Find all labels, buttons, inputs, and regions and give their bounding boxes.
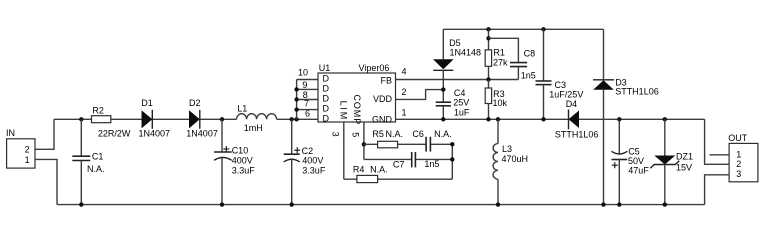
wire COMP pin 5 vertical	[363, 122, 365, 159]
svg-text:STTH1L06: STTH1L06	[615, 86, 659, 96]
svg-text:GND: GND	[372, 114, 393, 124]
svg-text:3.3uF: 3.3uF	[302, 165, 326, 175]
svg-text:6: 6	[305, 109, 310, 119]
svg-text:D: D	[323, 94, 330, 104]
diode D1 1N4007	[139, 98, 171, 138]
node C2 top junction	[290, 117, 294, 121]
capacitor C1	[72, 119, 104, 204]
wire IN pin2 to input rail	[35, 119, 54, 149]
svg-text:2: 2	[402, 87, 407, 97]
diode D4 STTH1L06	[555, 99, 599, 140]
connector OUT	[728, 133, 758, 182]
node DZ1 bottom junction	[663, 202, 667, 206]
node R1 C8 branch junction	[486, 36, 490, 40]
svg-text:R4: R4	[353, 164, 365, 174]
svg-text:C4: C4	[454, 88, 466, 98]
svg-text:OUT: OUT	[728, 133, 748, 143]
wire IC pin 7	[297, 98, 318, 109]
svg-text:1: 1	[736, 149, 741, 159]
svg-text:D2: D2	[189, 98, 201, 108]
node D3 bottom junction	[601, 202, 605, 206]
wire drain bus vertical	[296, 80, 298, 120]
node FB R1 R3 junction	[486, 77, 490, 81]
wire top clamp rail	[443, 28, 603, 30]
svg-text:1N4007: 1N4007	[186, 129, 218, 139]
node R3 GND junction	[486, 117, 490, 121]
resistor R3 10k	[485, 80, 507, 120]
svg-text:27k: 27k	[493, 58, 508, 68]
connector J1 IN	[6, 128, 35, 168]
svg-text:3.3uF: 3.3uF	[232, 165, 256, 175]
wire IC pin 9	[297, 80, 318, 90]
svg-text:C8: C8	[524, 48, 536, 58]
capacitor C6	[412, 129, 451, 151]
node L3 bottom junction	[496, 202, 500, 206]
wire IC pin 8	[297, 90, 318, 100]
zener diode DZ1 15V	[650, 119, 693, 204]
wire C7 line	[364, 158, 452, 160]
wire output rail to OUT pin2	[705, 119, 730, 164]
svg-text:C10: C10	[232, 146, 249, 156]
svg-text:1mH: 1mH	[244, 123, 263, 133]
node drain bus junction at rail	[294, 117, 298, 121]
svg-text:50V: 50V	[628, 156, 644, 166]
wire input rail (top row)	[54, 118, 318, 120]
svg-text:N.A.: N.A.	[386, 129, 404, 139]
node right vertical mid junction	[450, 157, 454, 161]
node bus pin7 junction	[294, 107, 298, 111]
svg-text:R2: R2	[92, 105, 104, 115]
svg-text:C5: C5	[628, 146, 640, 156]
node C3 GND junction	[541, 117, 545, 121]
node right vertical top junction	[450, 142, 454, 146]
svg-text:COMP: COMP	[352, 95, 362, 126]
node C5 top junction	[617, 117, 621, 121]
node bus pin9 junction	[294, 87, 298, 91]
svg-text:10k: 10k	[493, 98, 508, 108]
svg-text:C1: C1	[92, 152, 104, 162]
resistor R1 27k	[485, 29, 508, 79]
svg-text:D4: D4	[566, 99, 578, 109]
wire OUT pin1 stub	[710, 154, 730, 156]
capacitor C4	[436, 88, 470, 119]
capacitor C2 (polarized)	[284, 119, 326, 204]
svg-text:D: D	[323, 104, 330, 114]
resistor R5	[372, 129, 403, 148]
svg-text:C3: C3	[555, 80, 567, 90]
svg-text:2: 2	[736, 159, 741, 169]
svg-text:9: 9	[302, 80, 307, 90]
svg-text:10: 10	[298, 67, 308, 77]
wire R5/C6 line	[364, 143, 452, 145]
svg-text:STTH1L06: STTH1L06	[555, 129, 599, 139]
node C5 bottom junction	[617, 202, 621, 206]
node DZ1 top junction	[663, 117, 667, 121]
diode D3 STTH1L06 branch	[593, 29, 659, 204]
svg-text:1uF: 1uF	[454, 108, 470, 118]
svg-text:15V: 15V	[676, 162, 692, 172]
wire IN pin1 to bottom rail	[35, 159, 57, 204]
svg-text:C7: C7	[393, 159, 405, 169]
svg-text:47uF: 47uF	[628, 166, 649, 176]
svg-text:FB: FB	[380, 75, 392, 85]
capacitor C8 branch	[489, 38, 536, 80]
svg-text:7: 7	[304, 98, 309, 108]
svg-text:400V: 400V	[302, 155, 323, 165]
svg-text:1: 1	[25, 155, 30, 165]
svg-text:D: D	[323, 114, 330, 124]
svg-text:C6: C6	[412, 129, 424, 139]
node top rail R1 junction	[486, 27, 490, 31]
svg-text:N.A.: N.A.	[87, 164, 105, 174]
svg-text:LIM: LIM	[339, 101, 349, 121]
svg-text:25V: 25V	[453, 98, 469, 108]
node C2 bottom junction	[290, 202, 294, 206]
inductor L1 1mH	[237, 104, 277, 133]
svg-text:470uH: 470uH	[502, 154, 529, 164]
svg-text:1n5: 1n5	[521, 70, 536, 80]
svg-text:DZ1: DZ1	[676, 152, 693, 162]
wire comp network right vertical	[451, 144, 453, 179]
resistor R2	[92, 105, 131, 138]
wire VDD jog to D5 node	[396, 90, 444, 100]
node C10 bottom junction	[220, 202, 224, 206]
svg-text:1: 1	[402, 108, 407, 118]
wire IC pin 10	[297, 67, 318, 79]
inductor L3 470uH	[493, 119, 528, 204]
node C4 GND junction	[441, 117, 445, 121]
node VDD D5 junction	[441, 87, 445, 91]
svg-text:22R/2W: 22R/2W	[98, 129, 131, 139]
svg-text:Viper06: Viper06	[359, 63, 390, 73]
wire bottom rail	[57, 204, 705, 206]
capacitor C10 (polarized)	[214, 119, 255, 204]
resistor R4	[353, 164, 388, 182]
node COMP junction R5 line	[362, 142, 366, 146]
node C1 bottom junction	[79, 202, 83, 206]
wire output rail	[579, 118, 705, 120]
svg-text:3: 3	[736, 169, 741, 179]
node C10 top junction	[220, 117, 224, 121]
node top rail C3 junction	[541, 27, 545, 31]
svg-text:VDD: VDD	[373, 94, 393, 104]
svg-text:D: D	[323, 74, 330, 84]
svg-text:U1: U1	[319, 63, 331, 73]
capacitor C3	[536, 29, 584, 119]
op-amp U1 Viper06 IC body	[318, 63, 396, 125]
svg-text:4: 4	[402, 66, 407, 76]
svg-text:L3: L3	[502, 144, 512, 154]
svg-text:N.A.: N.A.	[434, 129, 452, 139]
svg-text:D: D	[323, 84, 330, 94]
svg-text:1N4148: 1N4148	[450, 47, 482, 57]
svg-text:R1: R1	[493, 47, 505, 57]
wire GND line	[396, 118, 569, 120]
svg-text:3: 3	[331, 132, 341, 137]
svg-text:1N4007: 1N4007	[139, 129, 171, 139]
node C1 top junction	[79, 117, 83, 121]
wire FB line	[396, 79, 519, 81]
svg-text:N.A.: N.A.	[370, 164, 388, 174]
wire bottom rail to OUT pin3	[705, 175, 730, 205]
node bus pin8 junction	[294, 97, 298, 101]
svg-text:L1: L1	[237, 104, 247, 114]
svg-text:R5: R5	[372, 129, 384, 139]
svg-text:IN: IN	[6, 128, 15, 138]
diode D5 1N4148 branch	[433, 29, 481, 102]
svg-text:D1: D1	[141, 98, 153, 108]
diode D2 1N4007	[186, 98, 218, 138]
svg-text:2: 2	[25, 145, 30, 155]
capacitor C5 (polarized)	[612, 119, 650, 204]
svg-text:5: 5	[351, 132, 361, 137]
wire LIM pin 3 vertical	[343, 122, 345, 179]
svg-text:1n5: 1n5	[424, 159, 439, 169]
svg-text:400V: 400V	[232, 156, 253, 166]
node L3 top junction	[496, 117, 500, 121]
capacitor C7	[393, 152, 440, 169]
wire R4 line	[344, 178, 453, 180]
